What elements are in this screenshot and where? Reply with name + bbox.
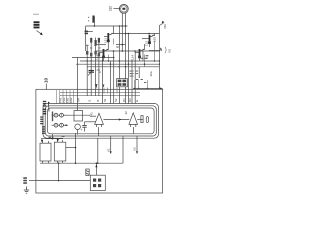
supply rail VM bbox=[159, 21, 165, 89]
svg-text:O1: O1 bbox=[122, 98, 126, 102]
svg-text:O2: O2 bbox=[128, 98, 132, 102]
svg-text:EN2: EN2 bbox=[69, 97, 73, 103]
motor M1 bbox=[119, 4, 128, 13]
wire bus H8 bbox=[87, 66, 159, 67]
svg-text:134: 134 bbox=[131, 55, 135, 60]
wire x102.5 drop bbox=[102, 57, 104, 104]
wire B2 to riser bbox=[66, 147, 76, 149]
pin label text columns bbox=[59, 97, 140, 103]
wire x139.2 drop bbox=[138, 67, 140, 78]
wire motor terminal B bbox=[125, 13, 127, 104]
feedback wire U1 bbox=[97, 127, 99, 136]
svg-text:110: 110 bbox=[109, 6, 113, 11]
svg-text:V1: V1 bbox=[107, 148, 111, 152]
transistor Q2 bbox=[142, 34, 155, 62]
svg-text:S2: S2 bbox=[114, 98, 118, 102]
wire U1 out to U2 bbox=[103, 118, 129, 120]
resistor R20 bbox=[74, 111, 83, 122]
wire x137 drop bbox=[136, 136, 138, 154]
wire top rail H1 bbox=[86, 25, 128, 27]
current mirror row 1 bbox=[52, 112, 69, 122]
indicator circle bbox=[75, 124, 81, 130]
wire block top to bus bbox=[95, 162, 97, 175]
wires above blocks bbox=[41, 134, 65, 143]
wire x119 drop bbox=[118, 26, 120, 104]
label marks near Q4 bbox=[130, 71, 133, 72]
svg-text:V2: V2 bbox=[133, 147, 137, 151]
resistor R10 right of U2 bbox=[137, 116, 143, 123]
svg-text:42: 42 bbox=[124, 111, 128, 115]
fuse F1 bbox=[86, 169, 89, 176]
wire x128.8 drop bbox=[127, 34, 129, 104]
bias labels bbox=[85, 44, 97, 46]
wire riser x123 bbox=[122, 136, 124, 163]
pin ticks right group bbox=[135, 80, 148, 88]
wire x132 drop bbox=[131, 61, 133, 104]
svg-text:S1: S1 bbox=[103, 98, 107, 102]
wire H4 bbox=[95, 50, 160, 52]
wire mirror to U1 minus bbox=[68, 114, 90, 116]
wire x135.2 drop bbox=[134, 51, 136, 104]
op-amp U1 bbox=[92, 113, 104, 127]
label RS bbox=[165, 47, 172, 53]
wire x76 drop bbox=[77, 58, 79, 111]
connector block 150 bbox=[117, 79, 128, 87]
svg-text:VR: VR bbox=[77, 98, 81, 102]
right pin label rows bbox=[130, 71, 139, 77]
bias network vertical wires bbox=[86, 26, 99, 96]
wire H3 mid bbox=[95, 44, 126, 48]
label column 40c bbox=[42, 126, 45, 134]
label dashes right mid bbox=[141, 58, 147, 59]
label C1 bbox=[97, 70, 103, 73]
wire x110.7 drop bbox=[110, 136, 112, 154]
right pin text marks bbox=[136, 79, 146, 83]
svg-text:I1: I1 bbox=[88, 99, 92, 102]
transistor Q4 bbox=[135, 44, 145, 67]
control block outer 20 bbox=[43, 104, 159, 139]
current mirror row 2 bbox=[52, 123, 69, 127]
wire motor terminal A bbox=[121, 13, 123, 51]
bus wire inside top 1 bbox=[60, 92, 140, 94]
svg-text:+: + bbox=[81, 128, 83, 132]
leader arrow 20 bbox=[48, 101, 50, 111]
svg-text:41: 41 bbox=[90, 112, 94, 116]
svg-text:131: 131 bbox=[104, 38, 108, 43]
bus wire inside top 2 bbox=[60, 94, 140, 96]
svg-text:VS: VS bbox=[168, 49, 172, 53]
transistor Q3 bbox=[99, 45, 109, 62]
op-amp U2 bbox=[129, 113, 138, 127]
feedback wire U2 bbox=[133, 127, 135, 134]
label right of Q4 bbox=[146, 55, 149, 58]
capacitor C10 oval bbox=[146, 117, 148, 123]
outer block 10 bbox=[36, 89, 163, 193]
wire y180.5 bbox=[36, 180, 90, 182]
stub wire y31.5 bbox=[86, 31, 93, 33]
label column 40b bbox=[40, 116, 43, 124]
svg-text:135: 135 bbox=[153, 37, 157, 42]
control block inner bbox=[47, 108, 154, 134]
svg-text:10: 10 bbox=[44, 77, 49, 83]
motor label 110 bbox=[109, 6, 121, 11]
transistor Q1 bbox=[104, 26, 114, 45]
pin stub lines bbox=[57, 90, 74, 104]
wire to sense output bbox=[149, 47, 164, 51]
label near riser bbox=[49, 137, 54, 138]
ground GND bbox=[24, 187, 29, 194]
svg-text:132: 132 bbox=[145, 41, 149, 46]
pin ticks at box top bbox=[104, 88, 117, 94]
wire x143 drop bbox=[142, 51, 144, 61]
svg-text:G: G bbox=[135, 100, 139, 102]
wire bus H6 bbox=[80, 60, 159, 61]
figure number 100 label bbox=[33, 14, 40, 28]
antenna stub at x94.4 bbox=[88, 16, 95, 27]
label 10 leader bbox=[44, 77, 49, 89]
control block mid bbox=[45, 106, 156, 136]
block B1 bbox=[40, 141, 51, 163]
svg-text:I2: I2 bbox=[96, 99, 100, 102]
wire to U1 plus bbox=[85, 121, 96, 123]
junction dots bus mesh bbox=[87, 57, 130, 68]
input terminal bbox=[23, 177, 36, 184]
wire x75.5 drop bbox=[75, 133, 77, 163]
node label 2 bbox=[85, 31, 88, 35]
wire x97.8 drop bbox=[97, 138, 99, 163]
capacitor C1 bbox=[88, 69, 94, 76]
leader arrow from 100 bbox=[37, 31, 43, 36]
pin arrows into box top bbox=[95, 84, 105, 89]
label column 40a bbox=[43, 101, 46, 115]
bus wire y88.4 right bbox=[133, 87, 163, 89]
bias dashes bbox=[86, 45, 101, 49]
bias upper blobs bbox=[90, 38, 100, 45]
wire bus H5 bbox=[72, 57, 114, 59]
wire y163 bus bbox=[40, 162, 123, 164]
wire x113.7 drop bbox=[113, 51, 115, 104]
wire branch x58.6 bbox=[58, 163, 60, 180]
wire x110.4 drop bbox=[109, 61, 111, 104]
bias component marks bbox=[86, 51, 100, 56]
wire H2 bbox=[113, 33, 159, 35]
svg-text:VM: VM bbox=[163, 24, 167, 29]
svg-text:30a: 30a bbox=[149, 71, 153, 76]
block B2 bbox=[54, 140, 66, 163]
wire bus H7 bbox=[76, 63, 159, 64]
regulator block 60 bbox=[90, 175, 105, 190]
capacitor C2 bbox=[81, 123, 87, 133]
